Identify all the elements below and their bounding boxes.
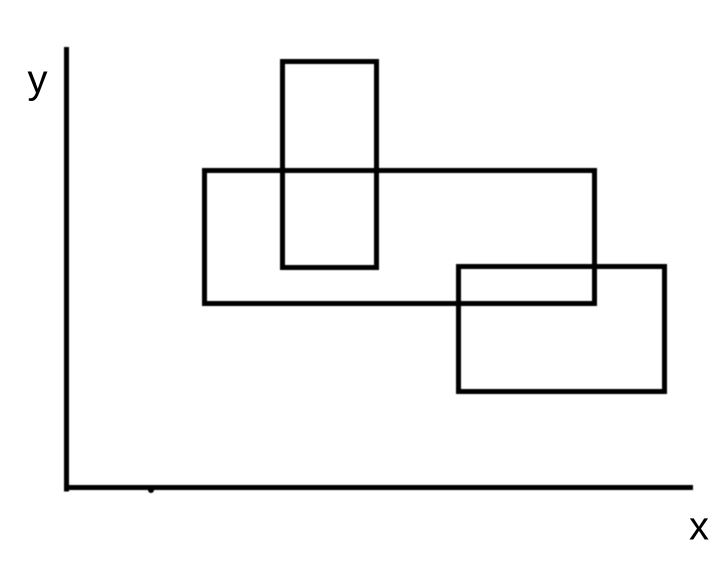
svg-text:y: y xyxy=(28,58,48,102)
rectangle right (bottom right) xyxy=(459,267,665,392)
y axis xyxy=(64,47,69,492)
rectangle tall (top middle) xyxy=(283,62,377,268)
x axis xyxy=(64,485,693,490)
tick dot on x axis xyxy=(148,487,154,493)
svg-text:x: x xyxy=(689,505,709,549)
rectangle wide (middle) xyxy=(205,171,595,304)
